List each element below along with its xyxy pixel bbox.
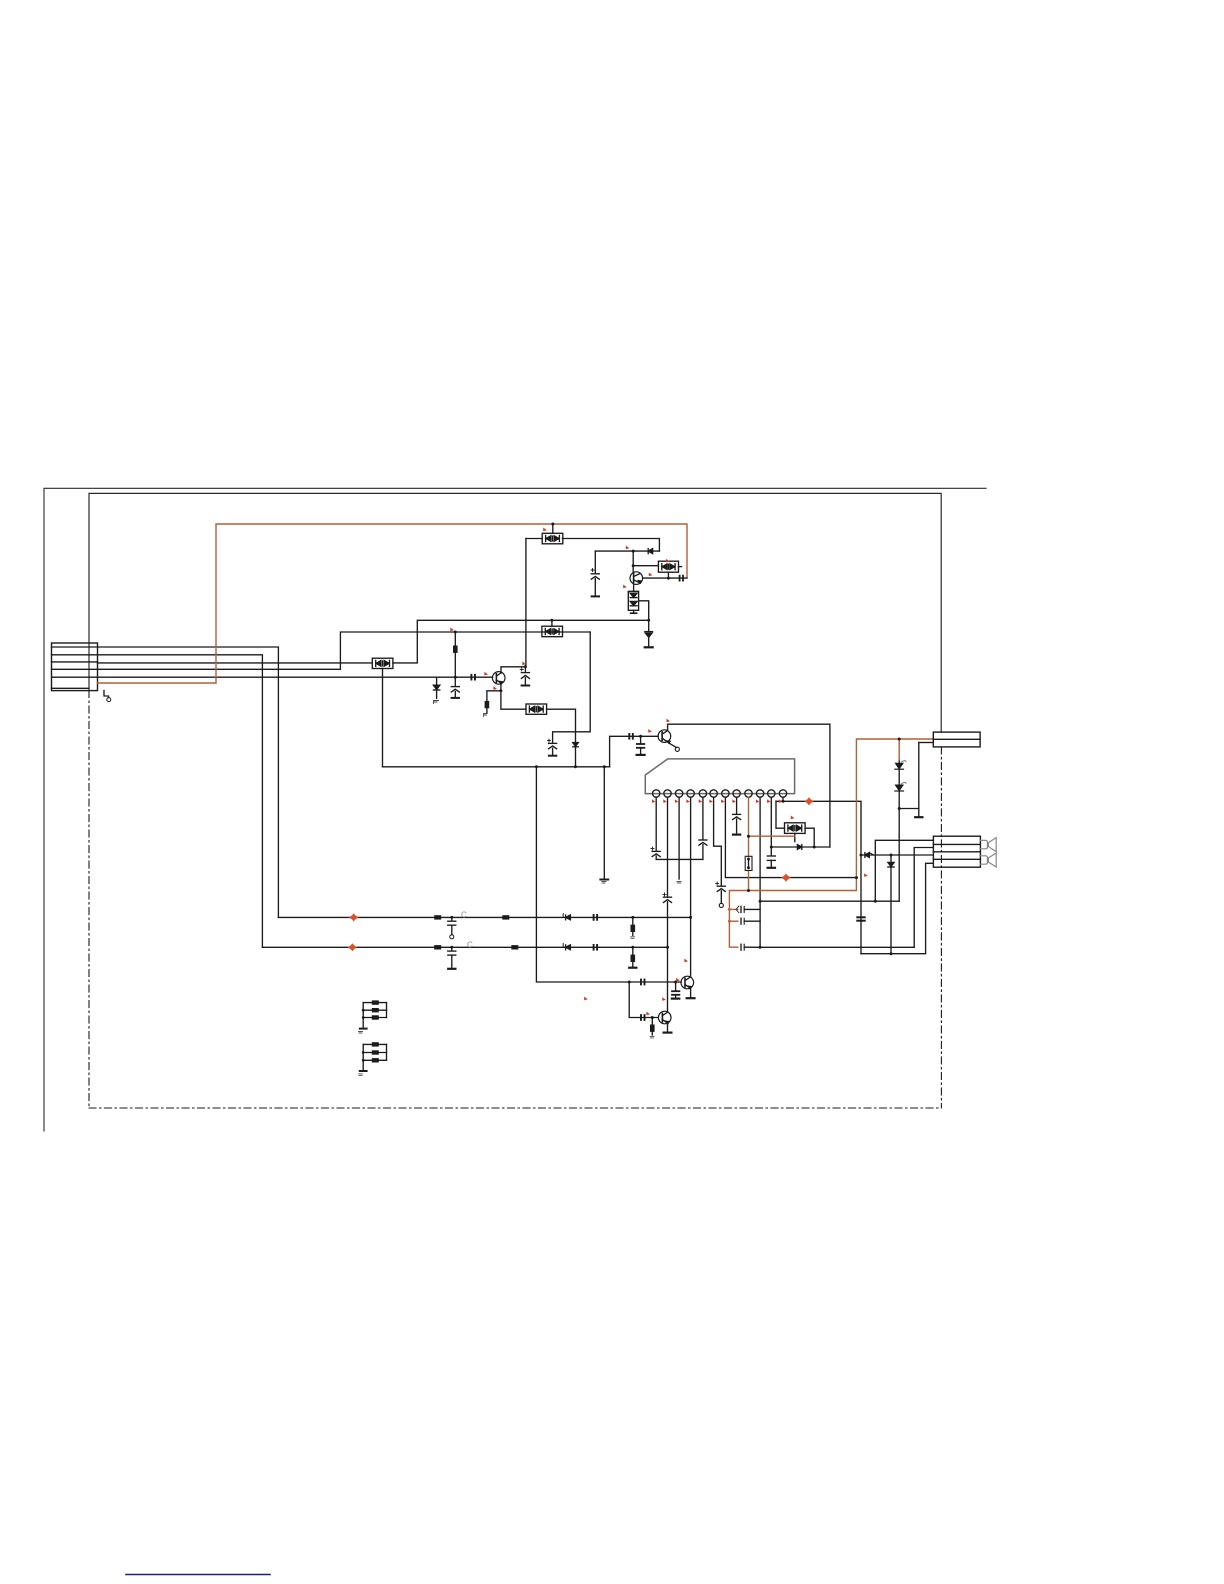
transistor Q1 — [630, 572, 643, 585]
capacitor C2 (Q2 collector node) — [520, 667, 529, 686]
wire lower right rail — [760, 946, 914, 948]
wire Q1 emitter row to orange corner — [643, 577, 687, 579]
wire D4 tap up — [551, 620, 553, 626]
capacitor C4 — [637, 736, 645, 755]
pin7 wire to orange bus — [725, 797, 856, 877]
resistor network RN1 — [359, 1000, 387, 1033]
connector CN2 (top right) — [933, 732, 980, 747]
wire DZ1 bottom stub — [633, 610, 635, 613]
board outline dash-dot right — [940, 747, 942, 1108]
wire Q3 collector up and right — [668, 724, 830, 730]
inline resistor — [511, 945, 518, 949]
stub bar x918 — [918, 743, 920, 817]
signal line2 y947 — [262, 946, 667, 948]
wire Q3 emitter to open terminal — [670, 743, 677, 747]
zener pair box DZ1 — [628, 591, 638, 610]
wire node row y551 — [595, 550, 659, 552]
wire Q1 bottom to zener box — [633, 584, 635, 591]
hanging resistor Q5 base — [651, 1018, 653, 1025]
speaker row3 wire with diode — [861, 854, 933, 856]
page frame outer L — [44, 488, 986, 1131]
row801 wire — [776, 801, 861, 953]
wire DZ1 side tap to riser — [639, 601, 649, 631]
resistor R(487) — [485, 701, 490, 708]
coupling caps bank (3) — [736, 906, 760, 913]
orange wire from CN1 pin6 up and across top — [98, 524, 688, 683]
hanging cap Q4 base — [674, 981, 677, 984]
long rail y766 — [383, 766, 610, 768]
inline resistor — [594, 945, 598, 950]
dual diode D7 — [785, 823, 806, 834]
pin11 wire — [770, 797, 772, 855]
wire D1 right lead over and down — [562, 539, 659, 552]
net arrow NA1 — [349, 913, 359, 921]
pin4 wire to Q4 collector — [690, 797, 692, 976]
wire connector CN2 pin2 — [919, 742, 934, 744]
wire bundle line3 — [98, 662, 373, 664]
speaker SP1 — [980, 838, 996, 852]
junction cap node — [639, 735, 642, 738]
pin3 stub — [678, 797, 680, 879]
diode on drop x575 — [573, 743, 578, 747]
wire Q2 emitter node — [501, 684, 526, 709]
connector CN1 (left multi-pin) — [52, 643, 98, 691]
wire V1 drop to Q5 base row — [629, 982, 658, 1018]
wire D2 tap down — [667, 572, 669, 578]
bottom jog wire to row4 — [861, 863, 933, 953]
capacitor C3 — [548, 739, 557, 756]
inline resistor — [502, 915, 509, 919]
speaker row1 riser — [875, 840, 933, 901]
board outline dash-dot left — [88, 691, 90, 1108]
wire D2 right stub — [679, 566, 682, 568]
svg-text:C: C — [467, 941, 473, 950]
wire bundle line2 — [98, 655, 263, 948]
wire D7 right lead down to pin11 row — [805, 828, 814, 847]
signal line1 y917 — [278, 916, 690, 918]
pins1-5 common wire — [656, 858, 703, 860]
wire D7 center tap — [794, 833, 796, 841]
capacitor at 455 below line5 — [451, 687, 459, 698]
wire D1-left long drop — [501, 539, 526, 673]
fuse/jumper box on pin9 net — [745, 856, 752, 870]
wire node to D2 — [633, 565, 658, 567]
dual diode D3 (on line3) — [372, 658, 393, 668]
resistor network RN2 — [359, 1042, 387, 1075]
wire Q5 emitter bar — [667, 1024, 669, 1032]
hanging resistor at 632 — [631, 916, 634, 919]
junction node base Q1 — [632, 550, 635, 553]
inline diode line2 — [563, 944, 570, 950]
capacitor on riser x648 — [645, 632, 653, 648]
hanging resistor at 632 line2 — [631, 946, 634, 949]
wire D7 left lead up to row801 — [776, 801, 785, 828]
junction line5/riser455 — [454, 676, 457, 679]
net arrow NA3 — [781, 874, 791, 882]
wire Q2 emitter branch left — [487, 691, 501, 701]
pin12 wire to row801 — [782, 797, 784, 801]
inline marker double tick — [680, 576, 683, 581]
capacitor on x861 — [857, 917, 864, 920]
speaker SP2 — [980, 853, 996, 867]
pin2 wire with series cap to Q5 collector — [667, 797, 669, 896]
transistor Q3 — [658, 730, 671, 744]
CN1 shield stub with circle — [104, 691, 109, 698]
dual diode D5 (Q2 emitter) — [526, 704, 547, 714]
bottom blue rule — [126, 1574, 270, 1576]
transistor Q2 — [492, 672, 505, 685]
pin10 wire down — [759, 797, 761, 947]
zener chain: Z1 — [898, 760, 900, 764]
inline resistor Q4 base — [641, 980, 645, 985]
speaker row2 riser — [914, 848, 933, 948]
wire Q4 emitter bar — [690, 989, 692, 998]
svg-text:C: C — [461, 911, 467, 920]
shunt cap — [450, 946, 453, 949]
wire zener node to stub — [899, 808, 919, 810]
IC U1 pins — [653, 790, 787, 797]
pin6 wire to cap with open terminal — [714, 797, 722, 885]
dual diode D2 (right of Q1) — [658, 561, 678, 572]
inline resistor — [594, 915, 598, 920]
inline resistor — [434, 915, 441, 919]
wire riser x590 to cap — [553, 632, 591, 743]
hanging diode at line5 left end — [433, 677, 439, 703]
stub down with bar at x604 — [603, 767, 605, 879]
zener Z2 — [895, 782, 906, 791]
dual diode D4 (under y620 line) — [542, 626, 563, 637]
wire D1 tap to orange — [552, 524, 554, 533]
wire D1 left lead — [526, 538, 542, 540]
wire pin10 branch to speaker row1 riser — [760, 900, 899, 902]
wire rail corner up to Q3 base line — [610, 736, 659, 767]
wire D5 right lead down to rail — [547, 709, 576, 767]
dual diode D1 (top) — [542, 533, 563, 544]
inline diode line1 — [563, 914, 570, 920]
pin8 wire and cap — [736, 797, 738, 813]
transistor Q5 — [658, 1011, 671, 1024]
connector CN3 (speakers) — [933, 836, 980, 867]
transistor Q4 — [681, 976, 694, 989]
pin1 wire and cap — [655, 797, 657, 850]
wire line3 continuation to riser — [393, 620, 649, 663]
net arrow NA4 — [804, 797, 814, 805]
capacitor C1 — [591, 551, 599, 596]
orange power bus — [729, 739, 933, 947]
red pin number marks — [450, 528, 868, 1016]
wire bundle line4 — [98, 632, 591, 669]
resistor R(455) — [453, 646, 458, 653]
riser x455 from y632 — [454, 632, 456, 686]
board outline dash-dot bottom — [89, 1107, 941, 1109]
wire bundle line1 — [98, 647, 279, 917]
IC U1 body — [645, 759, 794, 794]
wire pin11 row with diode — [771, 846, 830, 848]
inline resistor Q5 base — [641, 1015, 645, 1020]
junction on orange at top — [551, 523, 554, 526]
long rail drop x536 to Q4 base row — [536, 767, 681, 982]
inline resistor Q3 base — [629, 734, 633, 739]
inline resistor — [434, 945, 441, 949]
pin5 wire and cap — [702, 797, 704, 839]
shunt cap with open terminal — [450, 916, 453, 919]
board outline solid segments — [89, 493, 941, 732]
pin11 cap — [767, 856, 775, 868]
diode on y551 wire — [648, 549, 652, 554]
wire down to Q1 — [632, 551, 634, 572]
drop x891 with diode — [890, 855, 892, 954]
wire D3 center tap down to long rail — [382, 669, 384, 767]
inline resistor on line5 — [471, 675, 475, 680]
wire bundle line5 (to Q2 base) — [98, 676, 493, 678]
net arrow NA2 — [348, 943, 358, 951]
wire Q3 collector drop — [829, 724, 831, 847]
